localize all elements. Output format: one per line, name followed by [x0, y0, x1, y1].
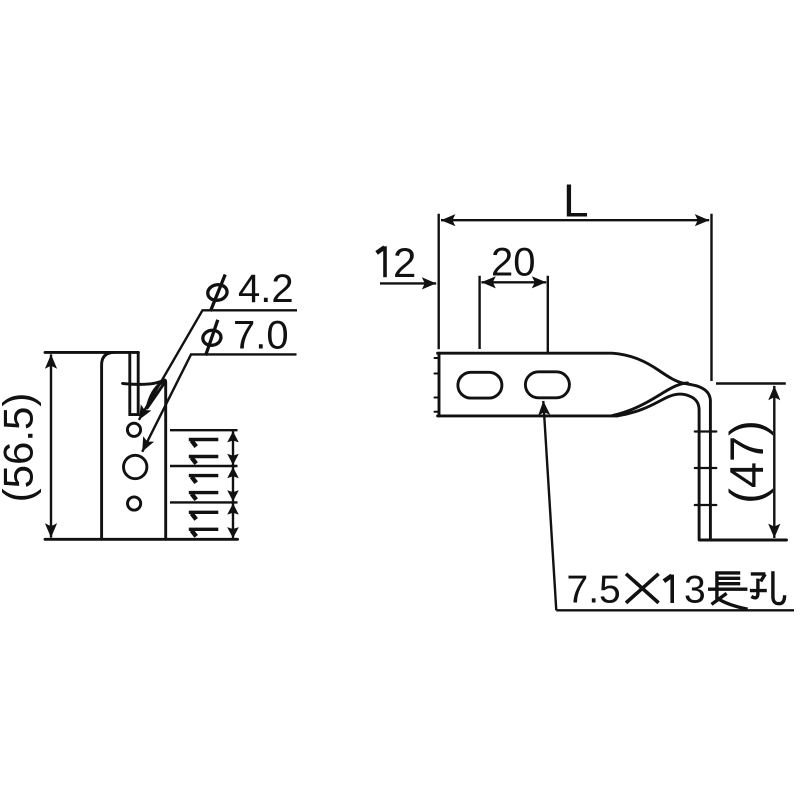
left view: fold line and right edge: [123, 380, 166, 539]
left view: plate outline top edge + extension line: [45, 351, 138, 354]
label 11 gap2: [189, 476, 219, 493]
right view: body bottom edge: [438, 414, 617, 417]
leader phi7.0 underline: [142, 354, 296, 451]
(47) dim line: [773, 386, 775, 538]
L dim left extension: [438, 214, 440, 349]
20 dim right extension: [547, 276, 549, 355]
right view: leg tick 1: [695, 430, 717, 432]
right view: slotted hole 1: [458, 372, 502, 398]
11-dim arrow 1: [232, 431, 234, 465]
right view: inner bend into leg: [617, 394, 699, 540]
left view: bend leaf arc a: [147, 380, 165, 408]
right view: left break edge: [438, 353, 441, 416]
11-dim extension line 2: [170, 465, 238, 467]
right view: break ticks: [435, 358, 439, 412]
11-dim arrow 2: [232, 467, 234, 501]
svg-text:2: 2: [393, 239, 416, 286]
right view: slotted hole 2: [525, 372, 569, 398]
right view: body top edge and outer bend into leg: [435, 353, 787, 540]
left view: plate bottom edge + extension line: [45, 538, 238, 541]
labels 11 x3 (rotated sans ones: stem + flag), gap1: [189, 440, 219, 537]
leader phi4.2 underline: [139, 310, 297, 420]
right view: leg tick 2: [695, 467, 717, 469]
left view: bend leaf arc b: [147, 383, 164, 408]
left view: slot (folded gap): [130, 352, 138, 414]
12 dim arrow: [380, 282, 436, 284]
svg-text:L: L: [563, 175, 589, 227]
L dim right extension: [710, 214, 712, 381]
right view: bend rise to cusp: [612, 383, 688, 416]
label 12: [377, 246, 385, 277]
svg-text:7.0: 7.0: [233, 314, 289, 358]
right view: leg tick 3: [695, 504, 717, 506]
20 dim line: [481, 281, 546, 283]
label 11 gap3: [189, 512, 219, 529]
svg-text:3: 3: [684, 568, 706, 611]
svg-text:7.5: 7.5: [567, 568, 621, 611]
left view: hole bottom: [128, 497, 141, 510]
dim (56.5) line: [50, 354, 52, 537]
left view: hole phi4.2 top: [127, 423, 140, 436]
(47) top extension: [716, 382, 786, 384]
11-dim extension line 1: [170, 429, 238, 431]
svg-text:20: 20: [491, 241, 536, 285]
label phi 7.0: [202, 320, 223, 356]
left view: plate left edge with rounded top corner: [102, 352, 115, 539]
kanji 長: [708, 572, 748, 610]
svg-text:(47): (47): [720, 420, 773, 504]
20 dim left extension: [478, 276, 480, 349]
left view: hole phi7.0 middle: [124, 455, 147, 478]
leader for slotted hole label: [543, 401, 556, 610]
kanji 孔: [750, 571, 785, 603]
slotted hole label underline: [556, 609, 794, 611]
label phi 4.2: [206, 275, 228, 312]
11-dim extension line 3: [170, 501, 238, 503]
svg-text:(56.5): (56.5): [0, 393, 42, 503]
L dim line: [441, 219, 709, 221]
right view: leg bottom + (47) bottom extension: [699, 539, 786, 542]
11-dim arrow 3: [232, 503, 234, 538]
svg-text:4.2: 4.2: [238, 267, 294, 311]
